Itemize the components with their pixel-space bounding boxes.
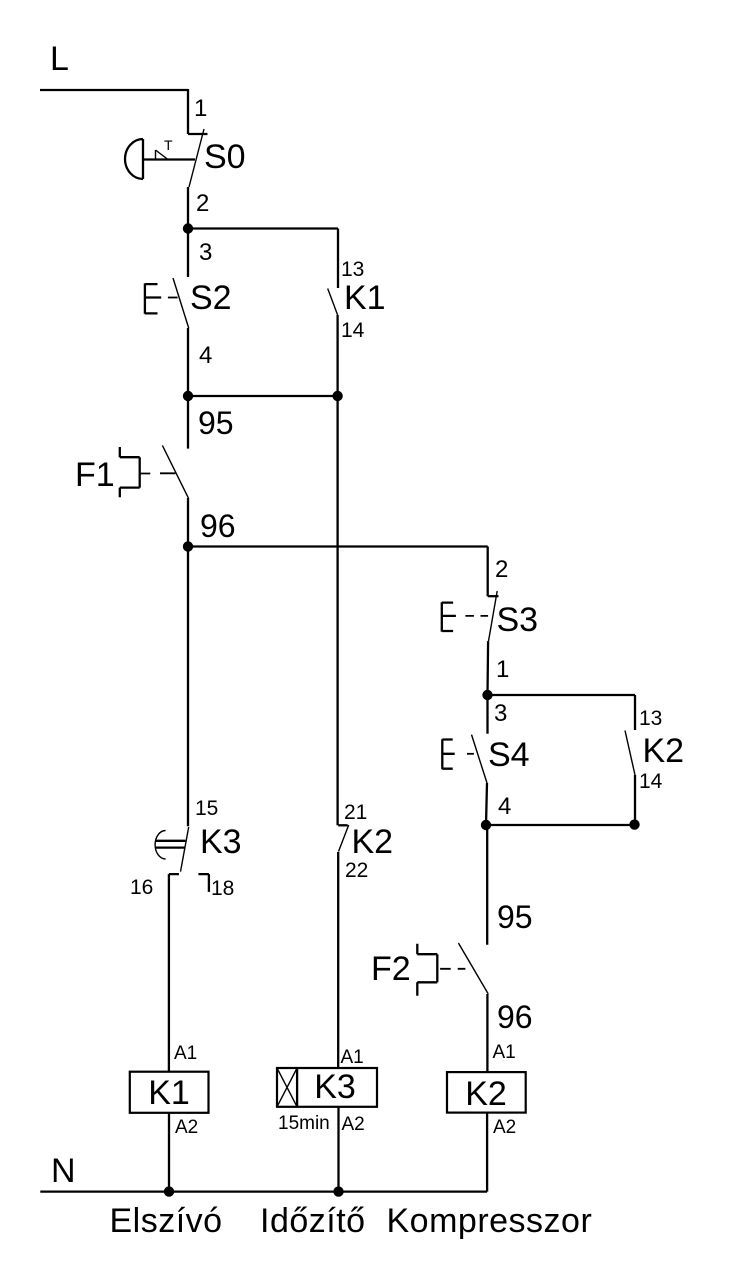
svg-text:A2: A2 [175,1117,198,1138]
svg-text:S4: S4 [488,736,530,774]
svg-text:K2: K2 [465,1075,507,1113]
wire middle rail [336,396,338,825]
svg-text:4: 4 [199,342,212,369]
wire S3 bottom [486,641,489,695]
svg-text:95: 95 [497,899,533,935]
wire to F1 [187,396,189,449]
timed contact K3 delay bars [155,841,185,848]
svg-text:1: 1 [496,656,509,683]
junction N at K1 [164,1186,174,1196]
contact K2 NC tick [338,824,348,826]
svg-text:96: 96 [497,999,533,1035]
svg-text:A1: A1 [174,1043,197,1064]
coil K3 timer X [277,1068,297,1107]
wire 96 to S3 branch [188,545,488,547]
svg-text:F1: F1 [75,456,115,494]
svg-text:1: 1 [194,95,207,122]
overload F1 dashes [140,472,176,474]
wire 95 row [188,395,338,397]
svg-text:A1: A1 [341,1047,364,1068]
junction node 95 right [332,391,342,401]
wire K2 aux bottom [634,775,636,825]
svg-text:15: 15 [195,797,218,820]
wire S2 bottom [187,328,189,396]
svg-text:2: 2 [495,556,508,583]
svg-text:K2: K2 [643,732,685,770]
wire to K2 aux branch [488,694,636,696]
coil K3 box [277,1068,377,1107]
svg-text:A2: A2 [493,1117,516,1138]
svg-text:2: 2 [196,190,209,217]
junction node S3/S4 [482,690,492,700]
wire left rail to K3 [187,547,189,827]
svg-text:K1: K1 [148,1074,190,1112]
svg-text:15min: 15min [278,1113,330,1134]
wire coil K1 to N [168,1113,170,1192]
svg-text:T: T [164,137,173,153]
wire S4 to K2 aux bottom [486,824,635,826]
wire L drop vertical [187,89,189,134]
junction node 95 left [183,391,193,401]
svg-text:22: 22 [345,859,368,882]
wire F1 bottom [187,498,189,547]
switch S3 actuator dashes [465,615,488,617]
svg-text:96: 96 [200,508,236,544]
svg-text:21: 21 [344,801,367,824]
wire to F2 [486,825,488,945]
wire K1 branch top [337,229,339,289]
svg-text:18: 18 [211,877,234,900]
wire S0 to node [187,187,189,229]
wire coil K2 to N [486,1113,488,1192]
switch S3 actuator [442,602,456,631]
contact K1 blade [328,289,338,316]
switch S0 actuator stem [143,158,195,160]
svg-text:L: L [50,40,69,78]
wire F2 bottom [486,994,488,1072]
svg-text:3: 3 [494,700,507,727]
timed contact K3 delay symbol [155,831,166,860]
svg-text:95: 95 [198,405,234,441]
svg-text:4: 4 [498,793,511,820]
switch S2 actuator dash [168,297,178,299]
junction node 96 [183,541,193,551]
switch S4 blade [472,735,488,783]
wire coil K3 to N [337,1107,339,1192]
svg-text:13: 13 [639,707,662,730]
svg-text:K3: K3 [314,1068,356,1106]
svg-text:S3: S3 [497,601,539,639]
coil K2 box [447,1072,526,1113]
switch S0 arrow triangle [156,150,168,159]
junction node after S0 [183,223,193,233]
svg-text:Elszívó: Elszívó [110,1202,223,1240]
svg-text:Kompresszor: Kompresszor [387,1202,593,1240]
wire K2 aux top [634,695,636,730]
svg-text:16: 16 [130,876,153,899]
svg-text:14: 14 [639,770,663,793]
switch S0 top terminal tick [188,133,208,135]
wire to S3 [487,547,489,597]
svg-text:13: 13 [341,258,364,281]
svg-text:K1: K1 [344,279,386,317]
junction node S4 bottom [481,820,491,830]
switch S3 tick [488,595,499,597]
overload F2 dashes [440,968,465,970]
timed contact K3 blade [181,827,189,872]
svg-text:A2: A2 [342,1114,365,1135]
svg-text:K2: K2 [352,823,394,861]
overload F1 actuator bracket [120,447,140,497]
switch S4 actuator [442,739,454,769]
terminal 16 of K3 [169,874,179,1072]
contact K2 NC blade [339,825,349,852]
svg-text:3: 3 [199,239,212,266]
switch S2 actuator [145,283,161,314]
switch S2 blade [173,278,189,328]
switch S0 mushroom head [125,139,143,179]
coil K3 timer partition [296,1068,298,1107]
svg-text:Időzítő: Időzítő [260,1202,366,1240]
overload F2 actuator bracket [417,944,437,996]
junction N at K3 [333,1186,343,1196]
wire N rail [40,1190,487,1192]
wire L feed horizontal [40,89,188,91]
svg-text:S2: S2 [190,279,232,317]
contact K2 aux blade [625,731,635,776]
terminal 18 of K3 [198,874,209,892]
overload F2 blade [458,943,488,994]
switch S0 blade [189,129,204,187]
wire node to S2 [187,229,189,278]
svg-text:N: N [51,1152,76,1190]
svg-text:S0: S0 [204,138,246,176]
switch S4 actuator dash [467,753,474,755]
coil K1 box [130,1072,209,1113]
overload F1 blade [162,445,188,498]
svg-text:K3: K3 [200,823,242,861]
wire S4 bottom [486,783,487,825]
junction node K2 aux bottom [629,819,639,829]
wire K2 NC to coil K3 [337,852,339,1068]
svg-text:F2: F2 [371,950,411,988]
svg-text:14: 14 [341,319,365,342]
wire node to K1 branch [188,227,338,229]
switch S3 blade [489,591,498,641]
svg-text:A1: A1 [493,1042,516,1063]
wire S4 top [486,695,488,734]
wire K1 branch bottom [336,315,338,396]
